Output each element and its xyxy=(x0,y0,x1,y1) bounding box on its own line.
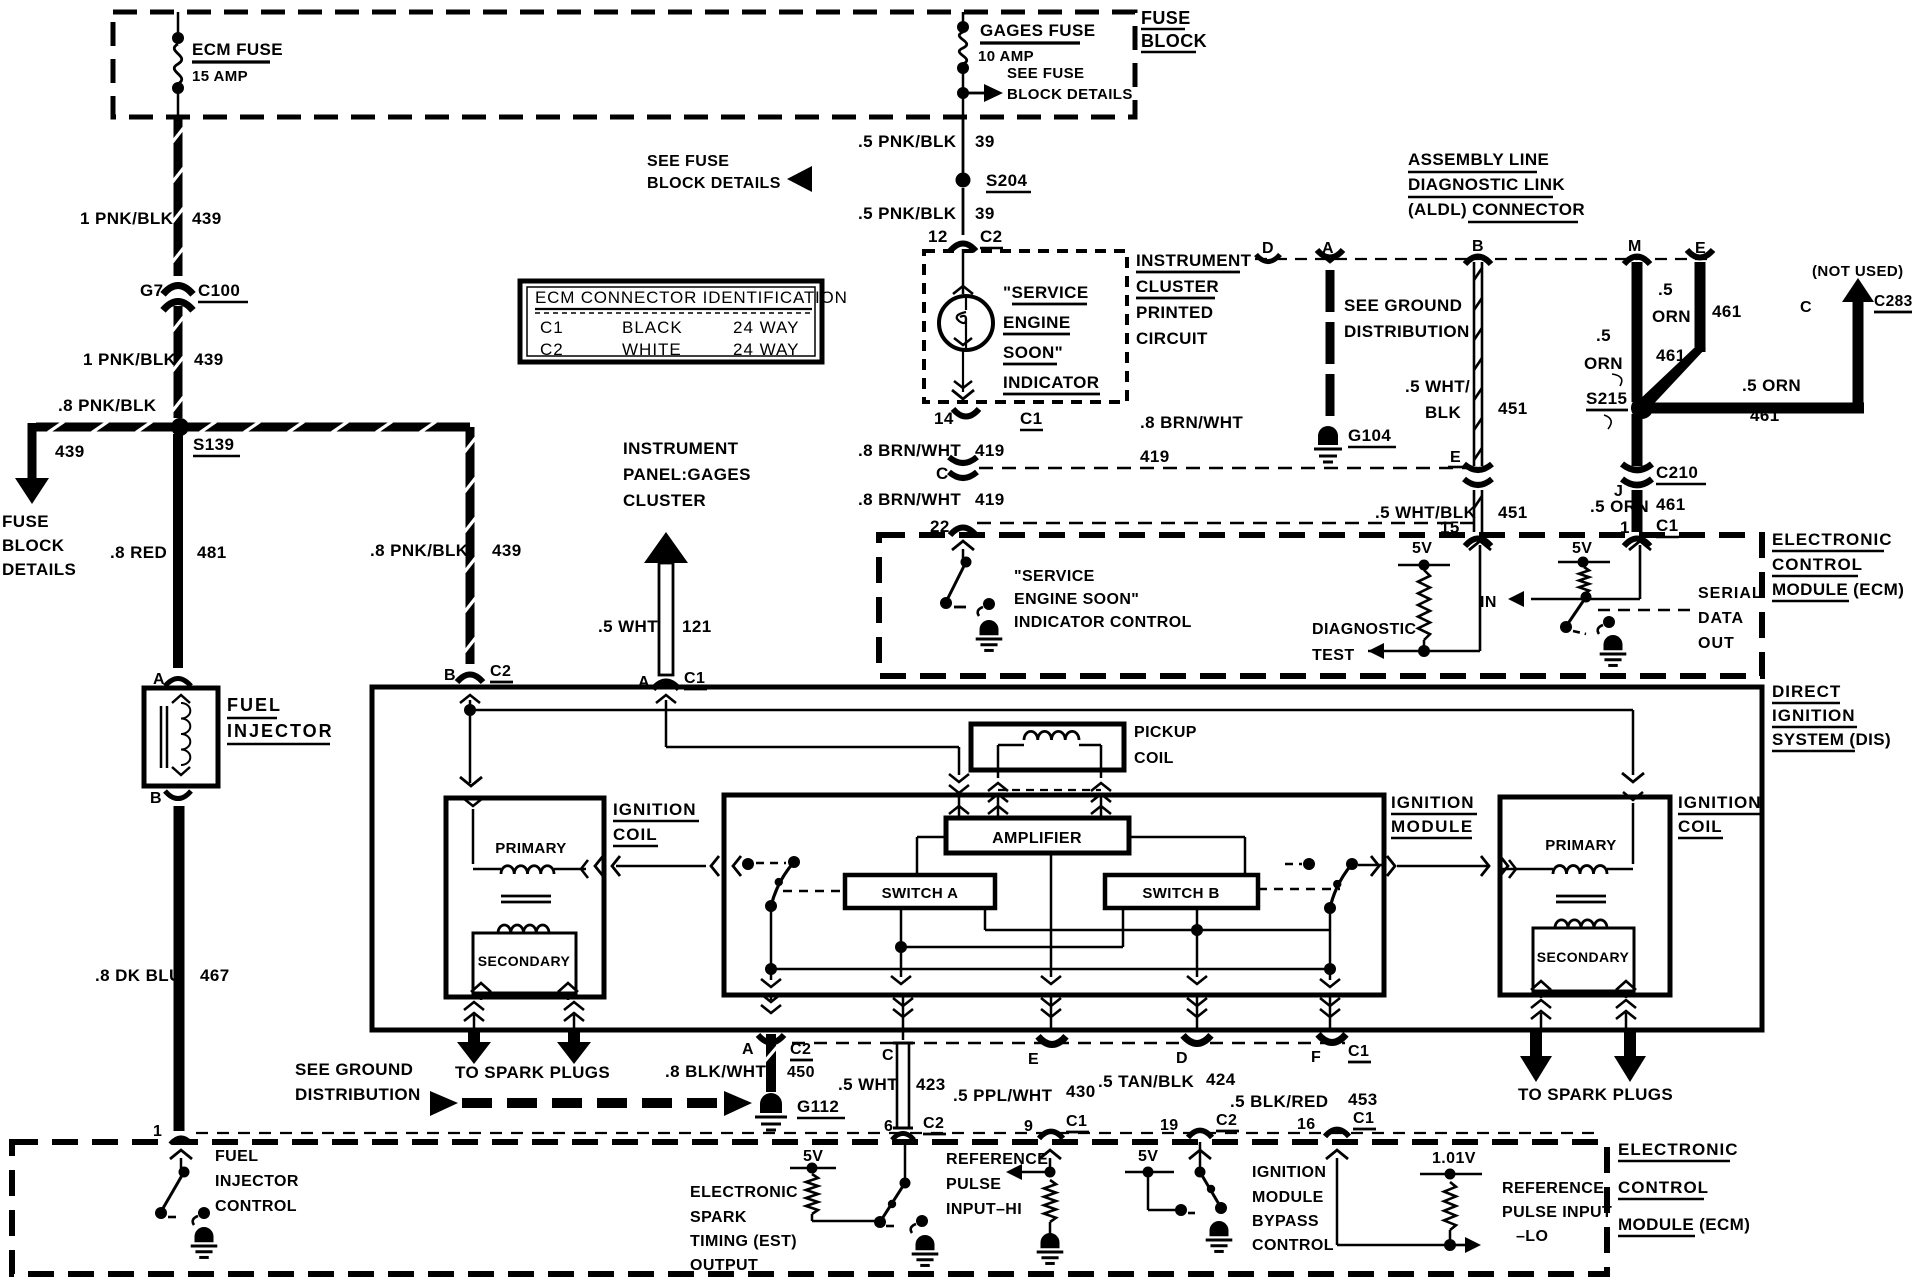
label INSTRUMENT PANEL GAGES CLUSTER xyxy=(623,439,751,510)
connector aldl E xyxy=(1687,250,1713,258)
svg-text:IN: IN xyxy=(1480,594,1497,611)
node B branch xyxy=(464,704,476,716)
svg-text:C2: C2 xyxy=(490,663,511,680)
svg-text:B: B xyxy=(444,667,456,684)
svg-text:.8 DK BLU: .8 DK BLU xyxy=(95,966,182,985)
label REFERENCE PULSE INPUT -LO xyxy=(1502,1180,1612,1245)
label .8 DK BLU 467 xyxy=(95,966,230,985)
svg-text:AMPLIFIER: AMPLIFIER xyxy=(992,830,1082,847)
instrument cluster box xyxy=(924,251,1127,402)
svg-text:450: 450 xyxy=(787,1064,815,1081)
wire see ground distribution arrow xyxy=(430,1091,752,1116)
svg-text:439: 439 xyxy=(492,541,522,560)
primary winding left xyxy=(463,798,588,878)
svg-text:430: 430 xyxy=(1066,1082,1096,1101)
svg-text:461: 461 xyxy=(1656,495,1686,514)
svg-text:461: 461 xyxy=(1750,406,1780,425)
svg-text:C1: C1 xyxy=(540,318,564,337)
ground (serial) xyxy=(1600,635,1627,665)
svg-text:COIL: COIL xyxy=(613,825,658,844)
svg-text:ELECTRONIC: ELECTRONIC xyxy=(690,1184,798,1201)
svg-text:DISTRIBUTION: DISTRIBUTION xyxy=(1344,322,1470,341)
svg-text:IGNITION: IGNITION xyxy=(1391,793,1475,812)
label .5 PNK/BLK 39 lower xyxy=(858,204,995,223)
svg-text:B: B xyxy=(150,790,162,807)
svg-text:SYSTEM (DIS): SYSTEM (DIS) xyxy=(1772,730,1891,749)
svg-text:SPARK: SPARK xyxy=(690,1209,747,1226)
svg-text:5V: 5V xyxy=(803,1148,823,1165)
switch B box xyxy=(1105,875,1258,908)
splice S215 xyxy=(1631,397,1653,419)
label SEE GROUND DISTRIBUTION (aldl) xyxy=(1344,296,1470,341)
label IGNITION COIL (left) xyxy=(613,800,699,846)
label G112 xyxy=(797,1097,845,1118)
connector A/C2 xyxy=(758,1035,784,1043)
svg-text:C2: C2 xyxy=(980,227,1003,246)
label DIRECT IGNITION SYSTEM (DIS) xyxy=(1772,682,1891,751)
svg-text:–LO: –LO xyxy=(1516,1228,1548,1245)
svg-text:INSTRUMENT: INSTRUMENT xyxy=(623,439,739,458)
label aldl pin D xyxy=(1262,240,1274,257)
connector C100 xyxy=(163,286,193,311)
svg-text:ELECTRONIC: ELECTRONIC xyxy=(1618,1140,1739,1159)
secondary box left xyxy=(473,933,576,993)
resistor ref pulse hi xyxy=(1044,1180,1056,1222)
svg-text:.5 PNK/BLK: .5 PNK/BLK xyxy=(858,204,957,223)
svg-text:439: 439 xyxy=(192,209,222,228)
label .5 PPL/WHT 430 xyxy=(953,1082,1096,1105)
wire D output xyxy=(1187,930,1207,1032)
wire into dis (B) xyxy=(460,695,480,707)
primary winding right xyxy=(1500,803,1633,878)
switch right (module) xyxy=(1285,858,1384,914)
label J xyxy=(1614,483,1623,500)
svg-text:INDICATOR CONTROL: INDICATOR CONTROL xyxy=(1014,614,1192,631)
label TO SPARK PLUGS (left) xyxy=(455,1063,610,1082)
label aldl pin A xyxy=(1322,240,1334,257)
connector ecm 9/C1 xyxy=(1039,1131,1063,1138)
bus y969 xyxy=(771,968,1330,971)
svg-text:.5 ORN: .5 ORN xyxy=(1590,497,1649,516)
label SEE FUSE BLOCK DETAILS (mid) xyxy=(647,153,812,192)
label 6 C2 xyxy=(884,1115,946,1135)
ground (SES control) xyxy=(976,620,1003,650)
label 9 C1 (ecm) xyxy=(1024,1113,1089,1135)
svg-text:.5 TAN/BLK: .5 TAN/BLK xyxy=(1098,1072,1195,1091)
label aldl pin E xyxy=(1695,240,1706,257)
DIS box xyxy=(372,687,1762,1030)
switch SES indicator control xyxy=(940,541,974,609)
svg-text:CONTROL: CONTROL xyxy=(1618,1178,1709,1197)
wire 461 M upper xyxy=(1632,262,1643,402)
label REFERENCE PULSE INPUT-HI xyxy=(946,1151,1048,1218)
svg-text:S204: S204 xyxy=(986,171,1027,190)
hook contact serial xyxy=(1598,616,1615,634)
svg-text:ECM CONNECTOR IDENTIFICATION: ECM CONNECTOR IDENTIFICATION xyxy=(535,288,848,307)
label AMPLIFIER xyxy=(992,830,1082,847)
label SERVICE ENGINE SOON INDICATOR xyxy=(1003,283,1100,394)
label 419 mid xyxy=(1140,447,1170,466)
wire 467 dk blu xyxy=(174,806,185,1131)
svg-text:SEE FUSE: SEE FUSE xyxy=(1007,65,1084,82)
svg-text:A: A xyxy=(153,671,165,688)
svg-text:IGNITION: IGNITION xyxy=(1772,706,1856,725)
label FUSE BLOCK DETAILS xyxy=(2,512,76,579)
connector ecm pin 1 xyxy=(170,1137,192,1143)
svg-text:ECM FUSE: ECM FUSE xyxy=(192,40,283,59)
svg-text:ORN: ORN xyxy=(1584,354,1623,373)
svg-text:COIL: COIL xyxy=(1678,817,1723,836)
wire ground A (dashed heavy) xyxy=(1326,270,1335,416)
wire 439 right arm xyxy=(188,422,476,665)
label pin 1 (ecm injector) xyxy=(153,1123,162,1140)
svg-text:423: 423 xyxy=(916,1075,946,1094)
svg-text:A: A xyxy=(742,1041,754,1058)
node 5V diagnostic xyxy=(1398,560,1450,571)
wire to bulb xyxy=(953,249,973,294)
svg-text:REFERENCE: REFERENCE xyxy=(1502,1180,1604,1197)
label FUEL INJECTOR xyxy=(227,695,334,744)
arrow to instrument panel xyxy=(644,532,688,675)
wire amp to switch B xyxy=(1129,837,1245,875)
svg-text:C1: C1 xyxy=(684,670,705,687)
ECM box upper xyxy=(879,535,1762,676)
splice S204 xyxy=(956,173,971,188)
svg-text:BYPASS: BYPASS xyxy=(1252,1213,1319,1230)
wire to left coil xyxy=(460,714,482,786)
wire serial data dashed xyxy=(1598,609,1692,612)
ignition coil box left xyxy=(446,798,604,997)
connector at injector A xyxy=(165,678,191,686)
svg-text:TO SPARK PLUGS: TO SPARK PLUGS xyxy=(455,1063,610,1082)
label E (dis bottom) xyxy=(1028,1051,1039,1068)
svg-text:C: C xyxy=(882,1047,894,1064)
svg-text:5V: 5V xyxy=(1572,540,1592,557)
wire dis top bus xyxy=(470,709,1633,712)
label .5 WHT 423 xyxy=(838,1075,946,1094)
svg-text:.8 BRN/WHT: .8 BRN/WHT xyxy=(1140,413,1243,432)
connector C (2-way) xyxy=(893,1043,913,1128)
svg-text:PRINTED: PRINTED xyxy=(1136,303,1213,322)
label ELECTRONIC CONTROL MODULE (ECM) lower xyxy=(1618,1140,1750,1236)
wire F output below right switch xyxy=(1320,995,1340,1032)
wire from bulb xyxy=(952,350,974,399)
svg-text:SWITCH B: SWITCH B xyxy=(1142,885,1219,902)
ground (ref pulse hi) xyxy=(1037,1233,1064,1263)
resistor serial xyxy=(1579,567,1589,594)
secondary winding left xyxy=(498,925,549,933)
label .5 ORN 461 (E wire) xyxy=(1652,280,1742,326)
label .5 ORN 461 (M lower) xyxy=(1590,495,1686,516)
arrow to fuse block details xyxy=(15,478,49,504)
svg-text:MODULE: MODULE xyxy=(1391,817,1474,836)
svg-text:PRIMARY: PRIMARY xyxy=(495,840,566,857)
label pin 15 xyxy=(1440,518,1460,537)
svg-text:IGNITION: IGNITION xyxy=(613,800,697,819)
svg-text:461: 461 xyxy=(1712,302,1742,321)
ignition coil box right xyxy=(1500,797,1670,995)
wire serial in xyxy=(1531,541,1651,599)
svg-text:G104: G104 xyxy=(1348,426,1391,445)
ECM box lower xyxy=(12,1142,1607,1274)
svg-text:C2: C2 xyxy=(1216,1112,1237,1129)
bulb SES indicator xyxy=(939,296,993,350)
svg-text:419: 419 xyxy=(975,490,1005,509)
svg-text:CLUSTER: CLUSTER xyxy=(1136,277,1219,296)
svg-text:C1: C1 xyxy=(1066,1113,1087,1130)
svg-text:PULSE: PULSE xyxy=(946,1176,1001,1193)
node 5V est xyxy=(790,1163,836,1174)
label ASSEMBLY LINE DIAGNOSTIC LINK (ALDL) CONNECTOR xyxy=(1408,150,1585,222)
wire 461 M lower xyxy=(1632,414,1643,466)
label 16 C1 (ecm) xyxy=(1297,1110,1376,1133)
svg-text:TO SPARK PLUGS: TO SPARK PLUGS xyxy=(1518,1085,1673,1104)
wire amp to switch A xyxy=(917,837,946,875)
label F C1 (dis bottom) xyxy=(1311,1043,1371,1066)
svg-text:C1: C1 xyxy=(1020,409,1043,428)
hook contact fuel inj xyxy=(193,1207,210,1225)
label 10 AMP xyxy=(978,48,1034,65)
label C210 xyxy=(1656,463,1706,484)
svg-text:.5 PPL/WHT: .5 PPL/WHT xyxy=(953,1086,1053,1105)
label G7 xyxy=(140,281,163,300)
label TO SPARK PLUGS (right) xyxy=(1518,1085,1673,1104)
svg-text:E: E xyxy=(1450,449,1461,466)
connector A/C1 est xyxy=(653,681,679,689)
label pin 12 xyxy=(928,227,948,246)
svg-text:C2: C2 xyxy=(540,340,564,359)
pickup coil box xyxy=(971,724,1124,770)
ground G104 xyxy=(1314,426,1342,462)
wire coil to module (left) xyxy=(595,856,741,876)
connector at injector B xyxy=(165,791,191,799)
connector aldl M xyxy=(1624,256,1650,264)
wire est corner xyxy=(812,1214,878,1221)
svg-text:OUTPUT: OUTPUT xyxy=(690,1257,758,1274)
switch A box xyxy=(845,875,995,908)
svg-text:SERIAL: SERIAL xyxy=(1698,585,1763,602)
connector aldl D xyxy=(1256,255,1280,262)
label .8 PNK/BLK 439 right xyxy=(370,541,522,560)
connector ecm 6/C2 xyxy=(892,1133,914,1139)
fuel injector FI1 xyxy=(144,688,218,786)
label 5V (bypass) xyxy=(1138,1148,1158,1165)
label .8 BRN/WHT right xyxy=(1140,413,1243,432)
svg-text:MODULE: MODULE xyxy=(1252,1189,1324,1206)
connector aldl B xyxy=(1465,256,1491,264)
label G104 xyxy=(1348,426,1396,447)
fuse block box xyxy=(113,12,1135,117)
core right xyxy=(1556,896,1606,902)
svg-text:PICKUP: PICKUP xyxy=(1134,724,1197,741)
svg-text:DIAGNOSTIC LINK: DIAGNOSTIC LINK xyxy=(1408,175,1565,194)
switch serial data xyxy=(1560,592,1592,635)
svg-text:INSTRUMENT: INSTRUMENT xyxy=(1136,251,1252,270)
svg-text:M: M xyxy=(1628,238,1642,255)
wire 461 to C283 xyxy=(1650,300,1864,414)
wire est to connector C xyxy=(893,995,913,1040)
label .8 BRN/WHT 419 row2 xyxy=(858,490,1005,509)
svg-text:"SERVICE: "SERVICE xyxy=(1014,568,1095,585)
svg-text:.8 RED: .8 RED xyxy=(110,543,167,562)
ground (est) xyxy=(912,1235,939,1265)
label 5V (diagnostic) xyxy=(1412,540,1432,557)
label 439 left xyxy=(55,442,85,461)
label SECONDARY (right) xyxy=(1537,949,1630,965)
label ELECTRONIC CONTROL MODULE (ECM) upper xyxy=(1772,530,1904,601)
svg-text:B: B xyxy=(1472,238,1484,255)
svg-text:INJECTOR: INJECTOR xyxy=(215,1173,299,1190)
label PRIMARY (right) xyxy=(1545,837,1616,854)
connector F (dis) xyxy=(1318,1034,1346,1042)
label SECONDARY (left) xyxy=(478,953,571,969)
connector C210 at M wire xyxy=(1622,464,1652,485)
svg-text:C1: C1 xyxy=(1348,1043,1369,1060)
svg-text:.8 BRN/WHT: .8 BRN/WHT xyxy=(858,490,961,509)
svg-text:.5 WHT: .5 WHT xyxy=(838,1075,898,1094)
svg-text:1 PNK/BLK: 1 PNK/BLK xyxy=(83,350,177,369)
svg-text:DISTRIBUTION: DISTRIBUTION xyxy=(295,1085,421,1104)
arrow diagnostic test xyxy=(1368,643,1400,659)
svg-text:419: 419 xyxy=(975,441,1005,460)
svg-text:SEE GROUND: SEE GROUND xyxy=(1344,296,1462,315)
svg-text:ASSEMBLY LINE: ASSEMBLY LINE xyxy=(1408,150,1549,169)
svg-text:439: 439 xyxy=(55,442,85,461)
label C2 (cluster) xyxy=(980,227,1003,248)
wire top bus to right coil xyxy=(1622,710,1644,800)
svg-text:DETAILS: DETAILS xyxy=(2,560,76,579)
svg-text:REFERENCE: REFERENCE xyxy=(946,1151,1048,1168)
connector aldl A xyxy=(1317,250,1343,262)
label SWITCH B xyxy=(1142,885,1219,902)
svg-text:ORN: ORN xyxy=(1652,307,1691,326)
svg-text:S139: S139 xyxy=(193,435,234,454)
wire aldl face line xyxy=(1255,258,1712,260)
svg-text:BLOCK DETAILS: BLOCK DETAILS xyxy=(647,175,781,192)
hook contact SES xyxy=(978,598,995,616)
svg-text:481: 481 xyxy=(197,543,227,562)
wire 39 upper xyxy=(962,117,965,174)
label DIAGNOSTIC TEST xyxy=(1312,621,1416,664)
svg-text:439: 439 xyxy=(194,350,224,369)
wire 439 pnk/blk upper xyxy=(173,117,184,276)
svg-text:419: 419 xyxy=(1140,447,1170,466)
label PICKUP COIL xyxy=(1134,724,1197,767)
ground (bypass) xyxy=(1206,1221,1233,1251)
label PRIMARY (left) xyxy=(495,840,566,857)
svg-text:.5 PNK/BLK: .5 PNK/BLK xyxy=(858,132,957,151)
connector C210 at B wire xyxy=(1464,464,1492,485)
svg-text:CONTROL: CONTROL xyxy=(215,1198,297,1215)
spark plug arrows left xyxy=(457,1032,591,1064)
label 1 PNK/BLK 439 lower xyxy=(83,350,224,369)
label 1.01V xyxy=(1432,1150,1476,1167)
connector B/C2 dis xyxy=(457,674,483,682)
connector ecm 22 xyxy=(950,527,976,535)
label aldl pin B xyxy=(1472,238,1484,255)
wire to ground ref hi xyxy=(1049,1222,1052,1234)
label A C1 (dis est) xyxy=(638,670,707,691)
node 1.01v xyxy=(1420,1169,1482,1180)
arrow ref pulse lo xyxy=(1450,1237,1481,1253)
svg-text:.5: .5 xyxy=(1596,326,1611,345)
wire ref pulse lo xyxy=(1326,1150,1456,1251)
svg-text:39: 39 xyxy=(975,204,995,223)
label E (c210) xyxy=(1448,449,1464,467)
label IGNITION MODULE BYPASS CONTROL xyxy=(1252,1164,1334,1254)
arrow ref pulse hi xyxy=(1006,1164,1050,1180)
svg-text:GAGES FUSE: GAGES FUSE xyxy=(980,21,1095,40)
svg-text:DIAGNOSTIC: DIAGNOSTIC xyxy=(1312,621,1416,638)
connector C inline xyxy=(949,457,977,478)
svg-text:INJECTOR: INJECTOR xyxy=(227,721,334,741)
label .5 WHT/BLK 451 lower xyxy=(1375,503,1528,522)
label .8 RED 481 xyxy=(110,543,227,562)
svg-text:451: 451 xyxy=(1498,399,1528,418)
svg-text:S215: S215 xyxy=(1586,389,1627,408)
svg-text:SEE GROUND: SEE GROUND xyxy=(295,1060,413,1079)
svg-text:SOON": SOON" xyxy=(1003,343,1063,362)
svg-text:451: 451 xyxy=(1498,503,1528,522)
label 15 AMP xyxy=(192,68,248,85)
svg-text:TIMING (EST): TIMING (EST) xyxy=(690,1233,797,1250)
label pin B (fuel injector) xyxy=(150,790,162,807)
svg-text:IGNITION: IGNITION xyxy=(1252,1164,1326,1181)
svg-text:FUSE: FUSE xyxy=(2,512,49,531)
wire 461 M to ecm xyxy=(1632,490,1643,532)
svg-text:C2: C2 xyxy=(923,1115,944,1132)
svg-text:15 AMP: 15 AMP xyxy=(192,68,248,85)
label B C2 (dis feed) xyxy=(444,663,513,684)
svg-text:5V: 5V xyxy=(1138,1148,1158,1165)
secondary pins left xyxy=(464,983,584,1030)
svg-text:1: 1 xyxy=(153,1123,162,1140)
svg-text:19: 19 xyxy=(1160,1117,1179,1134)
label S204 xyxy=(986,171,1031,192)
svg-text:.5 WHT/BLK: .5 WHT/BLK xyxy=(1375,503,1477,522)
label pin 22 xyxy=(930,517,950,536)
bus switch bottoms y930 xyxy=(985,908,1330,936)
label pin 1 C1 (ecm serial) xyxy=(1620,516,1679,537)
secondary box right xyxy=(1533,928,1634,991)
svg-text:F: F xyxy=(1311,1049,1321,1066)
label pin 14 xyxy=(934,409,954,428)
svg-text:C: C xyxy=(1800,299,1812,316)
wire 481 red xyxy=(173,434,183,668)
wire 451 wht/blk upper xyxy=(1474,262,1482,466)
svg-text:INPUT–HI: INPUT–HI xyxy=(946,1201,1022,1218)
label SEE GROUND DISTRIBUTION (bottom) xyxy=(295,1060,421,1104)
svg-text:OUT: OUT xyxy=(1698,635,1735,652)
label pin A (fuel injector) xyxy=(153,671,165,688)
label C (est connector) xyxy=(882,1047,894,1064)
svg-text:MODULE (ECM): MODULE (ECM) xyxy=(1618,1215,1750,1234)
svg-text:.5: .5 xyxy=(1658,280,1673,299)
wire 451 wht/blk lower xyxy=(1474,490,1482,532)
svg-text:1.01V: 1.01V xyxy=(1432,1150,1476,1167)
label IGNITION COIL (right) xyxy=(1678,793,1764,838)
svg-text:MODULE (ECM): MODULE (ECM) xyxy=(1772,580,1904,599)
label .8 PNK/BLK left xyxy=(58,396,157,415)
connector E (dis) xyxy=(1038,1036,1066,1044)
svg-text:5V: 5V xyxy=(1412,540,1432,557)
label .5 TAN/BLK 424 xyxy=(1098,1070,1236,1091)
connector D (dis) xyxy=(1183,1035,1211,1043)
label GAGES FUSE xyxy=(980,21,1095,43)
core left xyxy=(501,896,551,902)
label IGNITION MODULE (right) xyxy=(1391,793,1477,838)
svg-text:SECONDARY: SECONDARY xyxy=(478,953,571,969)
